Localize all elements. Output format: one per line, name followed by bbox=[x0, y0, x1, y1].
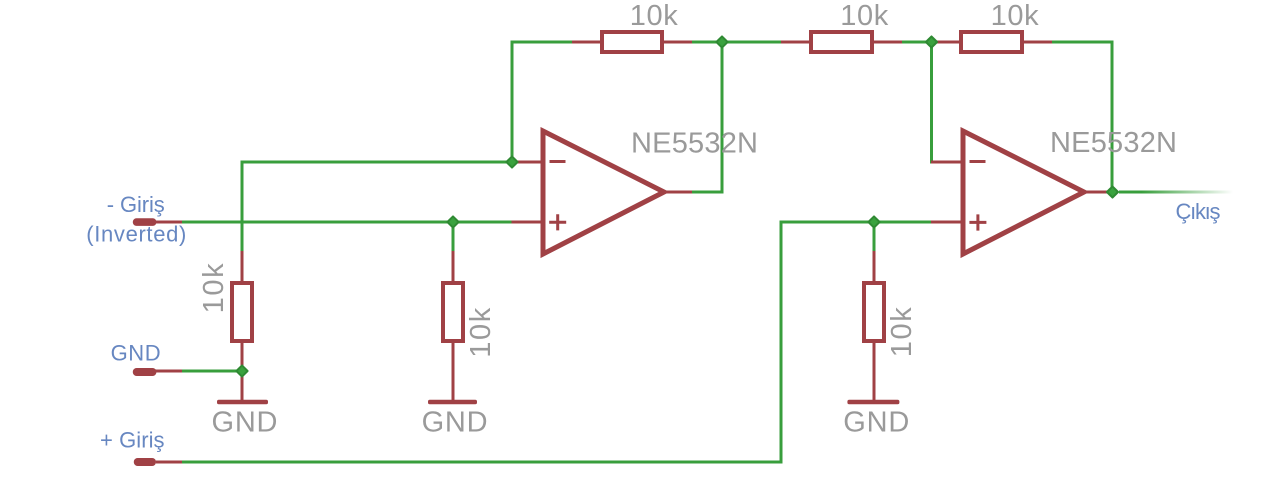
terminal pin P2 (GND input) bbox=[133, 368, 157, 376]
svg-text:GND: GND bbox=[111, 341, 161, 366]
svg-text:+ Giriş: + Giriş bbox=[100, 428, 165, 453]
op-amp U1 input lead wires bbox=[513, 161, 543, 164]
svg-text:(Inverted): (Inverted) bbox=[86, 221, 186, 246]
svg-text:10k: 10k bbox=[991, 0, 1040, 32]
resistor R6 10k body bbox=[961, 32, 1022, 52]
resistor R3 10k body bbox=[864, 283, 884, 341]
svg-text:- Giriş: - Giriş bbox=[107, 192, 165, 217]
wire + Giris pin P3 bottom run and riser to y=222 rail bbox=[182, 221, 781, 463]
resistor R5 10k body bbox=[811, 32, 872, 52]
op-amp U1 output lead wire bbox=[664, 191, 692, 194]
wire R6 right lead to top-right corner down to node J3 bbox=[1052, 42, 1112, 192]
wire node J1 down to U1 output bbox=[692, 42, 722, 192]
wire top-left corner to R4 left lead bbox=[512, 41, 572, 44]
wire R5 right lead to node J2 bbox=[902, 41, 933, 44]
wire U2 non-inverting rail y=222 from corner to U2 plus lead bbox=[781, 221, 932, 224]
wire node J7 down to R3 top lead bbox=[873, 222, 876, 251]
wire U1 inverting input rail y=162 from R1 top to node J4 bbox=[242, 161, 513, 164]
wire U1 non-inverting rail y=222 from pin P1 to U1 plus lead bbox=[182, 221, 513, 224]
resistor R2 lead wires bbox=[452, 251, 455, 281]
ground symbol G2 bar bbox=[428, 400, 477, 405]
resistor R1 10k body bbox=[232, 283, 252, 341]
node J2 junction bbox=[926, 36, 937, 47]
node J3 junction (U2 output) bbox=[1107, 186, 1118, 197]
op-amp U2 triangle body bbox=[963, 131, 1084, 254]
terminal pin P3 (+ Giris input) bbox=[134, 458, 156, 466]
wire R4 right lead to R5 left lead through node J1 bbox=[692, 41, 781, 44]
op-amp U1 triangle body bbox=[543, 131, 664, 254]
svg-text:10k: 10k bbox=[886, 307, 918, 358]
resistor R6 lead wires bbox=[932, 41, 960, 44]
resistor R2 10k body bbox=[443, 283, 463, 341]
svg-text:10k: 10k bbox=[465, 307, 497, 358]
svg-text:GND: GND bbox=[843, 407, 909, 439]
resistor R5 lead wires bbox=[781, 41, 809, 44]
op-amp U1 minus mark bbox=[550, 160, 566, 163]
svg-text:GND: GND bbox=[212, 407, 278, 439]
svg-text:10k: 10k bbox=[198, 263, 230, 314]
op-amp U2 input lead wires bbox=[931, 161, 963, 164]
terminal pin P1 (- Giris input) bbox=[133, 218, 157, 226]
ground symbol G3 bar bbox=[847, 400, 899, 405]
node J1 junction bbox=[716, 36, 727, 47]
node J6 junction (U1 plus rail to R2) bbox=[447, 216, 458, 227]
op-amp U2 output lead wire bbox=[1084, 191, 1110, 194]
svg-text:NE5532N: NE5532N bbox=[1050, 127, 1177, 159]
op-amp U1 plus mark bbox=[549, 214, 566, 230]
svg-text:GND: GND bbox=[422, 407, 488, 439]
wire U2 output fading to right edge bbox=[1119, 191, 1235, 194]
wire node J6 down to R2 top lead bbox=[452, 222, 455, 251]
svg-text:10k: 10k bbox=[840, 0, 889, 32]
resistor R4 10k body bbox=[602, 32, 662, 52]
op-amp U2 minus mark bbox=[970, 160, 986, 163]
op-amp U2 plus mark bbox=[969, 214, 986, 230]
ground symbol G1 bar bbox=[217, 400, 268, 405]
wire node J2 down to U2 inverting input bbox=[930, 42, 933, 164]
wire vertical x=242 from rail to R1 top lead bbox=[241, 161, 244, 252]
svg-text:10k: 10k bbox=[630, 0, 679, 32]
node J5 junction (GND pin to R1) bbox=[236, 365, 247, 376]
svg-text:Çıkış: Çıkış bbox=[1176, 199, 1221, 224]
wire GND pin P2 to node J5 bbox=[182, 370, 242, 373]
node J7 junction (U2 plus rail to R3) bbox=[868, 216, 879, 227]
svg-text:NE5532N: NE5532N bbox=[631, 127, 758, 159]
wire top-left vertical to node J4 bbox=[511, 41, 514, 163]
resistor R1 lead wires bbox=[241, 251, 244, 281]
resistor R3 lead wires bbox=[873, 251, 876, 281]
node J4 junction (U1 inverting input) bbox=[506, 156, 517, 167]
resistor R4 lead wires bbox=[572, 41, 600, 44]
